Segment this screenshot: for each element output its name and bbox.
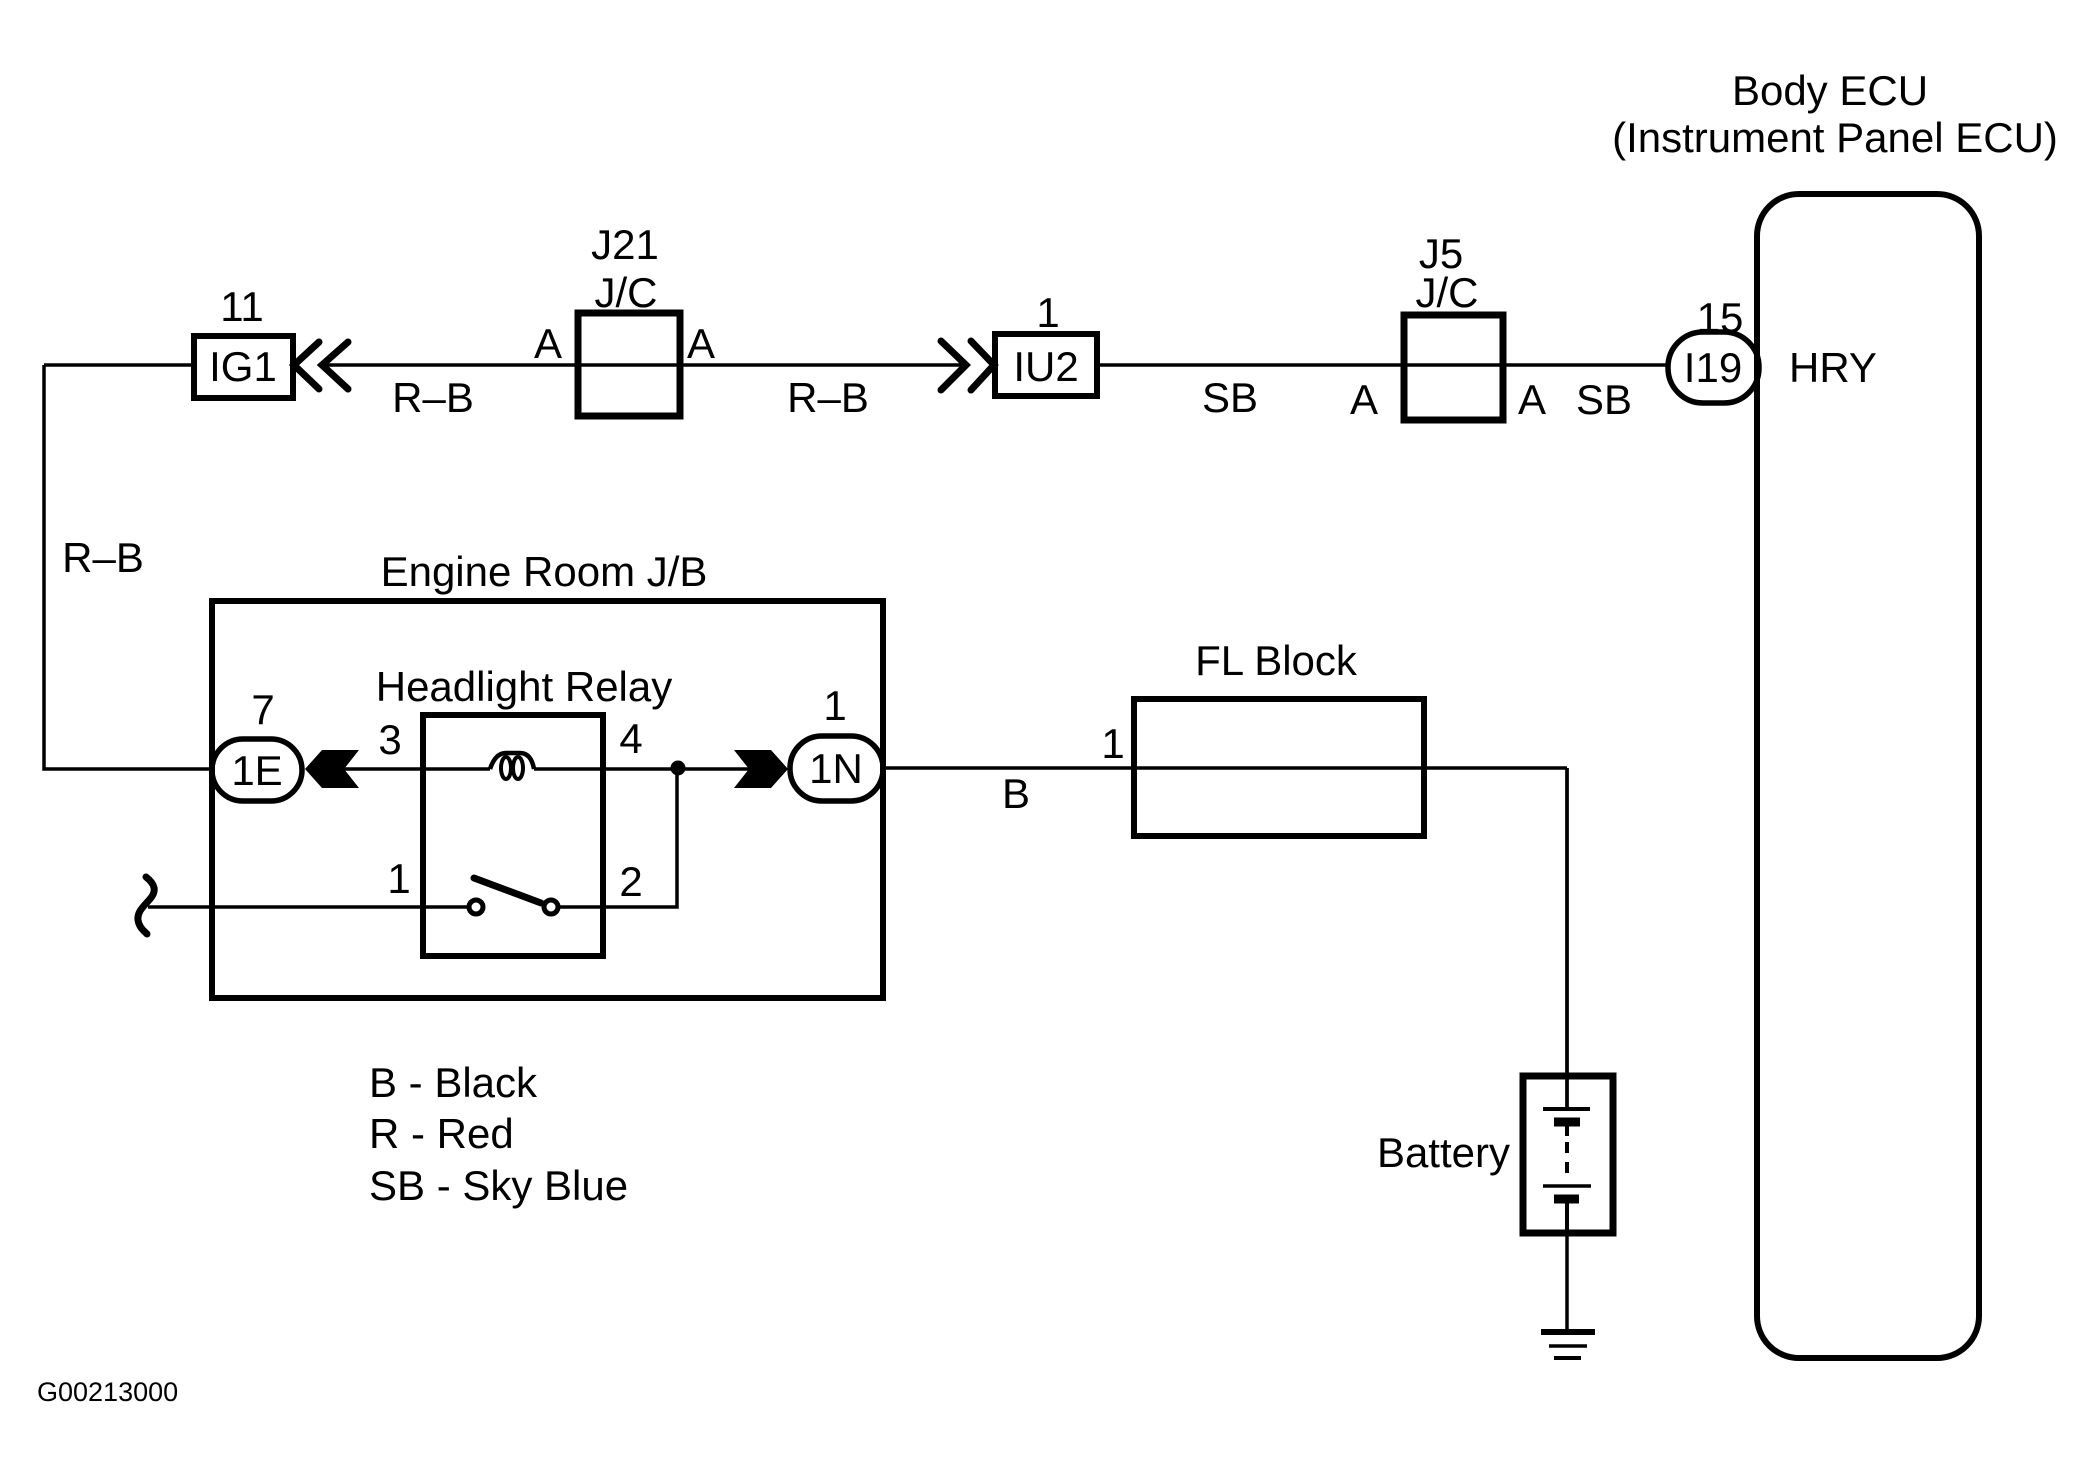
svg-text:1: 1 — [1101, 720, 1124, 767]
svg-text:1: 1 — [1036, 289, 1059, 336]
svg-text:J/C: J/C — [1416, 269, 1479, 316]
wire left vertical R-B — [44, 365, 212, 769]
wire squiggle to switch pin1 — [148, 905, 468, 909]
svg-text:IG1: IG1 — [209, 343, 277, 390]
relay coil — [490, 753, 534, 769]
svg-text:A: A — [534, 320, 562, 367]
svg-text:B: B — [1002, 770, 1030, 817]
svg-text:G00213000: G00213000 — [37, 1377, 178, 1407]
relay switch contact pin2 — [544, 900, 558, 914]
svg-text:15: 15 — [1697, 294, 1744, 341]
svg-text:Headlight Relay: Headlight Relay — [376, 663, 673, 710]
wire 1N to FL Block to corner — [883, 766, 1567, 770]
svg-text:4: 4 — [619, 715, 642, 762]
svg-text:1: 1 — [823, 682, 846, 729]
svg-text:SB: SB — [1576, 376, 1632, 423]
solid arrow right at 1N — [734, 750, 788, 788]
connector box IG1 — [194, 336, 293, 398]
solid arrow left at 1E — [305, 750, 359, 788]
svg-text:A: A — [687, 320, 715, 367]
connector oval 1N — [790, 736, 883, 801]
junction box J21 J/C — [578, 313, 680, 416]
wire corner down to battery — [1565, 768, 1569, 1109]
wire 1E arrow notch to coil — [344, 767, 490, 771]
Headlight Relay box — [423, 715, 603, 956]
wire battery to ground — [1565, 1203, 1569, 1332]
svg-text:R - Red: R - Red — [369, 1110, 514, 1157]
svg-text:1E: 1E — [231, 747, 282, 794]
svg-text:J21: J21 — [591, 221, 659, 268]
wire coil to 1N arrow — [534, 767, 750, 771]
svg-text:R–B: R–B — [787, 374, 869, 421]
svg-text:Engine Room J/B: Engine Room J/B — [381, 548, 708, 595]
junction dot node — [671, 761, 686, 776]
svg-text:1: 1 — [387, 855, 410, 902]
ground symbol — [1541, 1332, 1595, 1358]
svg-text:SB - Sky Blue: SB - Sky Blue — [369, 1162, 628, 1209]
svg-text:I19: I19 — [1684, 344, 1742, 391]
wire top-left stub to IG1 — [44, 363, 194, 367]
svg-text:R–B: R–B — [392, 374, 474, 421]
relay switch lever — [474, 878, 541, 903]
connector box IU2 — [995, 334, 1097, 396]
connector oval 1E — [212, 739, 302, 801]
battery symbol — [1523, 768, 1613, 1233]
junction box J5 J/C — [1404, 315, 1503, 420]
wire IU2 to I19 through J5 — [1097, 363, 1670, 367]
svg-text:SB: SB — [1202, 374, 1258, 421]
svg-text:A: A — [1350, 376, 1378, 423]
wire IG1 chevrons to IU2 chevrons through J21 — [322, 363, 963, 367]
svg-text:1N: 1N — [809, 745, 863, 792]
svg-text:FL Block: FL Block — [1195, 637, 1358, 684]
svg-text:3: 3 — [378, 716, 401, 763]
relay switch contact pin1 — [469, 900, 483, 914]
chevrons << at IG1 — [294, 342, 348, 389]
svg-text:7: 7 — [251, 686, 274, 733]
svg-text:R–B: R–B — [62, 534, 144, 581]
FL Block box — [1134, 699, 1424, 836]
svg-text:IU2: IU2 — [1013, 343, 1078, 390]
chevrons >> at IU2 — [941, 341, 994, 390]
break squiggle — [138, 877, 154, 934]
svg-text:J/C: J/C — [595, 269, 658, 316]
svg-text:Body ECU: Body ECU — [1732, 67, 1928, 114]
wire junction vertical to pin2 — [559, 769, 677, 907]
svg-text:2: 2 — [619, 858, 642, 905]
svg-text:A: A — [1518, 376, 1546, 423]
svg-text:Battery: Battery — [1377, 1129, 1510, 1176]
connector oval I19 — [1668, 332, 1759, 403]
svg-text:HRY: HRY — [1789, 344, 1877, 391]
Engine Room J/B box — [212, 601, 883, 998]
Body ECU outline — [1757, 194, 1979, 1358]
svg-text:11: 11 — [220, 283, 264, 330]
svg-text:(Instrument Panel ECU): (Instrument Panel ECU) — [1612, 114, 2058, 161]
svg-text:B - Black: B - Black — [369, 1059, 538, 1106]
